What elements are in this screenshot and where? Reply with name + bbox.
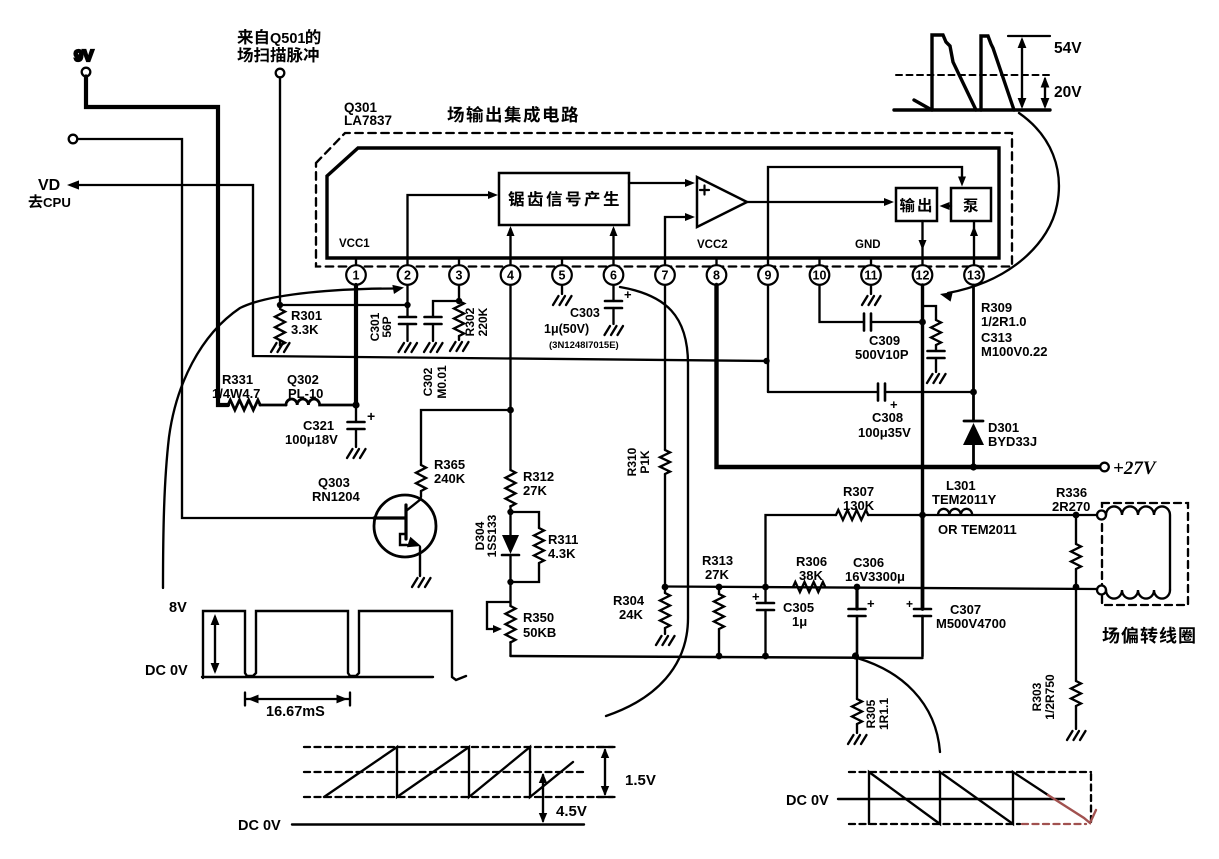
capacitor C303 1u(50V) bbox=[612, 285, 614, 301]
wire pin6 riser into sawtooth generator bbox=[612, 229, 614, 258]
label VCC1 bbox=[339, 238, 370, 250]
svg-text:PL-10: PL-10 bbox=[288, 386, 323, 401]
svg-text:C306: C306 bbox=[853, 555, 884, 570]
svg-text:R336: R336 bbox=[1056, 485, 1087, 500]
svg-text:8: 8 bbox=[713, 269, 720, 283]
svg-text:130K: 130K bbox=[843, 498, 875, 513]
svg-text:D301: D301 bbox=[988, 420, 1019, 435]
node VD terminal bbox=[69, 135, 78, 144]
svg-text:5: 5 bbox=[559, 269, 566, 283]
wire pin 3 down bbox=[458, 285, 460, 301]
svg-text:1.5V: 1.5V bbox=[625, 772, 656, 789]
pin 2 bbox=[406, 258, 408, 265]
waveform output dashed levels bbox=[849, 772, 1091, 824]
svg-text:Q501: Q501 bbox=[270, 31, 305, 47]
svg-text:27K: 27K bbox=[705, 567, 729, 582]
svg-text:R331: R331 bbox=[222, 372, 253, 387]
node 16.67mS dimension bbox=[245, 693, 350, 706]
svg-text:LA7837: LA7837 bbox=[344, 113, 392, 128]
wire annotation curve pin6 to sawtooth waveform bbox=[606, 287, 688, 716]
pin 7 bbox=[664, 258, 666, 265]
svg-text:+: + bbox=[867, 596, 875, 611]
pin 9 bbox=[767, 258, 769, 265]
ground pin 5 bbox=[561, 285, 563, 294]
wire pin7 riser to op-amp - input bbox=[665, 217, 691, 258]
svg-text:50KB: 50KB bbox=[523, 625, 556, 640]
node 8V dimension arrow bbox=[214, 617, 216, 671]
svg-text:R305: R305 bbox=[864, 699, 878, 728]
svg-text:8V: 8V bbox=[169, 600, 187, 616]
label VCC2 bbox=[697, 239, 728, 251]
resistor R304 24K bbox=[664, 587, 666, 593]
resistor R365 240K bbox=[416, 465, 426, 491]
block output stage 输出 bbox=[896, 188, 937, 221]
svg-text:OR TEM2011: OR TEM2011 bbox=[938, 522, 1017, 537]
inductor L301 TEM2011Y bbox=[938, 509, 972, 515]
svg-text:GND: GND bbox=[855, 239, 881, 251]
resistor R311 4.3K parallel branch bbox=[511, 512, 540, 528]
block pump 泵 bbox=[951, 188, 991, 221]
svg-text:R365: R365 bbox=[434, 457, 465, 472]
svg-text:38K: 38K bbox=[799, 568, 823, 583]
wire pin 12 output trunk bbox=[921, 285, 924, 609]
svg-text:C321: C321 bbox=[303, 418, 334, 433]
resistor R303 1/2R750 bbox=[1075, 587, 1077, 681]
pin 12 bbox=[921, 258, 923, 265]
waveform DC 0V baseline bbox=[238, 818, 281, 834]
capacitor C308 100u35V bbox=[768, 391, 878, 393]
svg-text:R350: R350 bbox=[523, 610, 554, 625]
svg-text:+: + bbox=[367, 408, 375, 424]
resistor R312 27K bbox=[506, 470, 516, 506]
wire output stage to pin 12 bbox=[921, 221, 923, 258]
pin 8 bbox=[715, 258, 717, 265]
svg-text:1/2R1.0: 1/2R1.0 bbox=[981, 314, 1027, 329]
capacitor C302 M0.01 bbox=[433, 301, 459, 317]
svg-text:DC 0V: DC 0V bbox=[145, 663, 188, 679]
wire pin 13 to pump bbox=[973, 221, 975, 258]
capacitor C313 M100V0.22 bbox=[928, 351, 945, 358]
svg-text:C309: C309 bbox=[869, 333, 900, 348]
svg-text:+27V: +27V bbox=[1113, 458, 1157, 479]
svg-text:R303: R303 bbox=[1030, 682, 1044, 711]
svg-text:27K: 27K bbox=[523, 483, 547, 498]
inductor yoke top winding bbox=[1097, 511, 1106, 520]
waveform 8V drive pulses bbox=[169, 600, 187, 616]
wire pin 2 down bbox=[406, 285, 408, 317]
capacitor C309 500V10P bbox=[864, 314, 871, 331]
resistor R305 1R1.1 bbox=[856, 656, 858, 699]
svg-text:RN1204: RN1204 bbox=[312, 489, 360, 504]
wire pin4 node to R365 bbox=[421, 410, 511, 465]
block sawtooth signal generator 锯齿信号产生 bbox=[499, 173, 629, 225]
svg-text:L301: L301 bbox=[946, 478, 976, 493]
resistor R302 bbox=[454, 301, 464, 336]
svg-text:1SS133: 1SS133 bbox=[485, 514, 499, 557]
waveform flyback pulse baseline bbox=[894, 108, 1050, 111]
wire pin 7 down bbox=[664, 285, 666, 450]
node pulse input junction bbox=[277, 302, 283, 308]
capacitor C307 M500V4700 bbox=[919, 512, 926, 519]
svg-text:1: 1 bbox=[353, 269, 360, 283]
svg-text:M500V4700: M500V4700 bbox=[936, 616, 1006, 631]
svg-text:220K: 220K bbox=[476, 307, 490, 336]
resistor R331 1/4W4.7 bbox=[228, 400, 260, 410]
svg-text:2: 2 bbox=[404, 269, 411, 283]
wire annotation curve waveform to pin 12 bbox=[948, 113, 1059, 293]
label Q301 LA7837 bbox=[344, 100, 392, 128]
diode D301 BYD33J bbox=[972, 392, 975, 467]
inductor yoke bottom winding bbox=[1097, 586, 1106, 595]
svg-text:R310: R310 bbox=[625, 447, 639, 476]
svg-text:DC 0V: DC 0V bbox=[786, 793, 829, 809]
svg-text:54V: 54V bbox=[1054, 40, 1082, 57]
svg-text:16.67mS: 16.67mS bbox=[266, 704, 325, 720]
label GND bbox=[855, 239, 881, 251]
resistor R306 38K bbox=[793, 582, 825, 592]
wire pin9 riser and top feedback to pump bbox=[768, 167, 962, 258]
waveform sawtooth ramps bbox=[324, 747, 573, 797]
svg-text:R307: R307 bbox=[843, 484, 874, 499]
svg-text:240K: 240K bbox=[434, 471, 466, 486]
svg-text:7: 7 bbox=[662, 269, 669, 283]
svg-text:1/4W4.7: 1/4W4.7 bbox=[212, 386, 260, 401]
svg-text:M100V0.22: M100V0.22 bbox=[981, 344, 1048, 359]
svg-text:4: 4 bbox=[507, 269, 514, 283]
wire pin 4 down bbox=[509, 285, 511, 470]
svg-text:56P: 56P bbox=[380, 316, 394, 337]
capacitor C301 bbox=[399, 317, 416, 324]
node 4.5V dimension arrow bbox=[542, 775, 544, 821]
svg-text:C313: C313 bbox=[981, 330, 1012, 345]
svg-text:+: + bbox=[906, 597, 913, 611]
svg-text:6: 6 bbox=[610, 269, 617, 283]
waveform flyback pulses bbox=[914, 100, 930, 109]
wire feedback line to deflection yoke return bbox=[665, 587, 1097, 590]
svg-text:13: 13 bbox=[967, 269, 981, 283]
pin 10 bbox=[818, 258, 820, 265]
label 场输出集成电路 (vertical output IC) bbox=[447, 106, 578, 123]
svg-text:Q303: Q303 bbox=[318, 475, 350, 490]
inductor Q302 PL-10 bbox=[286, 399, 356, 405]
svg-text:R309: R309 bbox=[981, 300, 1012, 315]
svg-text:4.5V: 4.5V bbox=[556, 803, 587, 820]
svg-text:C302: C302 bbox=[421, 367, 435, 396]
waveform flyback dashed 20V level bbox=[896, 74, 1050, 76]
wire pin2 riser to sawtooth generator input bbox=[408, 195, 495, 258]
svg-text:R302: R302 bbox=[463, 307, 477, 336]
svg-text:C307: C307 bbox=[950, 602, 981, 617]
svg-text:R304: R304 bbox=[613, 593, 645, 608]
wire 9V feed to R331 bbox=[86, 77, 228, 406]
svg-text:11: 11 bbox=[864, 269, 877, 283]
wire pin4 riser into sawtooth generator bbox=[509, 229, 511, 258]
wire pump to output stage arrow bbox=[943, 205, 951, 207]
wire pin 10 to C309 bbox=[820, 285, 865, 322]
node 54V dimension arrow bbox=[1021, 40, 1023, 106]
svg-text:R306: R306 bbox=[796, 554, 827, 569]
wire pin 1 VCC1 trunk bbox=[354, 285, 358, 405]
pin 3 bbox=[458, 258, 460, 265]
wire R301 node to pin 2 bbox=[280, 304, 408, 306]
capacitor C305 1u bbox=[762, 584, 769, 591]
wire annotation curve to output sawtooth waveform bbox=[857, 658, 940, 752]
svg-text:(3N1248l7015E): (3N1248l7015E) bbox=[549, 340, 619, 351]
svg-text:VCC1: VCC1 bbox=[339, 238, 370, 250]
node input from Q501 vertical scan pulse bbox=[237, 29, 320, 63]
pin 13 bbox=[973, 258, 975, 265]
resistor R310 P1K bbox=[660, 450, 670, 474]
svg-text:3: 3 bbox=[456, 269, 463, 283]
svg-text:TEM2011Y: TEM2011Y bbox=[932, 492, 997, 507]
svg-text:100μ35V: 100μ35V bbox=[858, 425, 911, 440]
svg-text:1μ: 1μ bbox=[792, 614, 807, 629]
svg-text:P1K: P1K bbox=[638, 450, 652, 474]
capacitor C306 16V3300u bbox=[854, 584, 861, 591]
wire L301 line to yoke top bbox=[923, 514, 1098, 516]
op-amp U1 comparator triangle bbox=[697, 177, 747, 227]
svg-text:9: 9 bbox=[765, 269, 772, 283]
wire Q501 pulse input down to R301/pin2 node bbox=[279, 78, 281, 306]
resistor R309 1/2R1.0 bbox=[923, 306, 937, 320]
ground pin 11 bbox=[870, 285, 872, 294]
pin 4 bbox=[509, 258, 511, 265]
svg-text:12: 12 bbox=[916, 269, 930, 283]
capacitor C321 100u18V bbox=[355, 405, 357, 422]
svg-text:100μ18V: 100μ18V bbox=[285, 432, 338, 447]
diode D304 1SS133 bbox=[509, 512, 511, 535]
svg-text:VD: VD bbox=[38, 177, 60, 194]
transistor Q303 RN1204 bbox=[374, 495, 436, 557]
wire bottom bus bbox=[511, 656, 923, 658]
wire pin 13 down bbox=[972, 285, 975, 392]
resistor R336 2R270 bbox=[1075, 515, 1077, 544]
IC U301 outer dashed package boundary bbox=[316, 133, 1012, 267]
node 1.5V dimension arrow bbox=[597, 747, 613, 797]
svg-text:DC 0V: DC 0V bbox=[238, 818, 281, 834]
svg-text:Q302: Q302 bbox=[287, 372, 319, 387]
waveform DC 0V line bbox=[838, 798, 1064, 800]
wire pin 9 down to C308 line bbox=[767, 285, 769, 392]
svg-text:24K: 24K bbox=[619, 607, 643, 622]
resistor R313 27K bbox=[716, 584, 723, 591]
svg-text:C308: C308 bbox=[872, 410, 903, 425]
pin 6 bbox=[612, 258, 614, 265]
pin 5 bbox=[561, 258, 563, 265]
resistor R307 130K bbox=[766, 515, 837, 587]
IC Q301 LA7837 inner block bbox=[327, 148, 999, 258]
svg-text:+: + bbox=[752, 589, 760, 604]
svg-text:CPU: CPU bbox=[43, 195, 71, 210]
svg-text:1/2R750: 1/2R750 bbox=[1043, 674, 1057, 720]
wire pin 8 VCC2 to +27V bus bbox=[717, 285, 1101, 467]
wire VD/CPU line and bus to pin 9 bbox=[79, 185, 766, 361]
svg-text:20V: 20V bbox=[1054, 84, 1082, 101]
node 20V dimension arrow bbox=[1044, 79, 1046, 106]
node +27V terminal bbox=[1100, 463, 1109, 472]
svg-text:9V: 9V bbox=[74, 48, 94, 65]
wire op-amp output to output stage bbox=[747, 201, 890, 203]
svg-text:500V10P: 500V10P bbox=[855, 347, 909, 362]
svg-text:R301: R301 bbox=[291, 308, 322, 323]
pin 11 bbox=[870, 258, 872, 265]
wire sawtooth generator output to op-amp + input bbox=[629, 182, 691, 184]
svg-text:3.3K: 3.3K bbox=[291, 322, 319, 337]
svg-text:10: 10 bbox=[813, 269, 827, 283]
waveform output sawtooth bbox=[869, 772, 1048, 824]
potentiometer R350 50KB bbox=[509, 582, 511, 606]
deflection yoke 场偏转线圈 dashed box bbox=[1102, 503, 1188, 605]
wire annotation curve 8V waveform to pin 2 bbox=[163, 289, 398, 589]
resistor R301 3.3K bbox=[275, 309, 285, 345]
svg-text:2R270: 2R270 bbox=[1052, 499, 1090, 514]
svg-text:C305: C305 bbox=[783, 600, 814, 615]
svg-text:4.3K: 4.3K bbox=[548, 546, 576, 561]
wire VD terminal to Q303 base bbox=[77, 139, 374, 518]
svg-text:M0.01: M0.01 bbox=[435, 365, 449, 399]
svg-text:R311: R311 bbox=[548, 532, 578, 547]
svg-text:R313: R313 bbox=[702, 553, 733, 568]
svg-text:16V3300μ: 16V3300μ bbox=[845, 569, 905, 584]
node VD to CPU output arrow bbox=[29, 177, 71, 210]
svg-text:C303: C303 bbox=[570, 306, 600, 320]
svg-text:1R1.1: 1R1.1 bbox=[877, 698, 891, 730]
waveform ramp dashed levels bbox=[304, 747, 615, 797]
svg-text:VCC2: VCC2 bbox=[697, 239, 728, 251]
pin 1 bbox=[355, 258, 357, 265]
svg-text:BYD33J: BYD33J bbox=[988, 434, 1037, 449]
svg-text:1μ(50V): 1μ(50V) bbox=[544, 322, 589, 336]
svg-text:R312: R312 bbox=[523, 469, 554, 484]
